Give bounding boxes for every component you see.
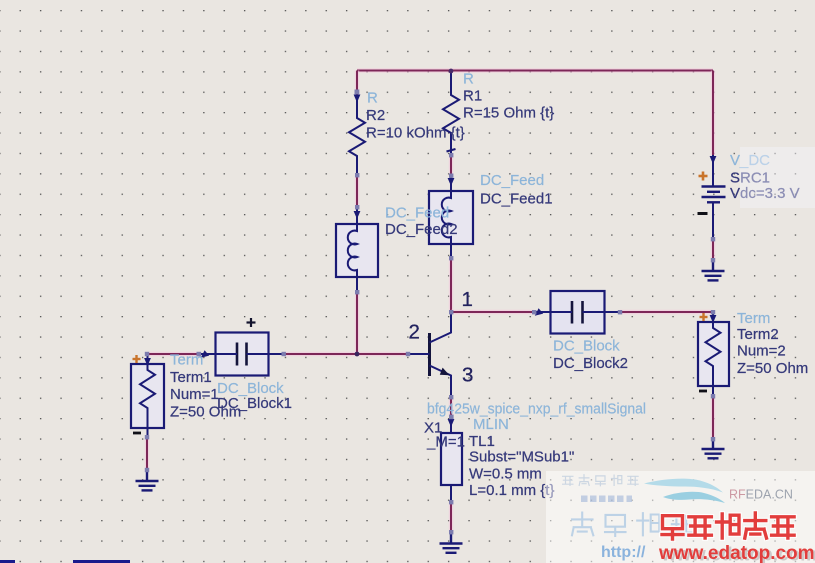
svg-text:DC_Feed: DC_Feed xyxy=(480,172,544,189)
watermark backdrop xyxy=(546,471,815,563)
ground below Term2 xyxy=(702,439,725,458)
svg-text:R2: R2 xyxy=(366,107,385,124)
pin marker Term1 top xyxy=(145,352,149,356)
pin marker base xyxy=(406,352,410,356)
svg-text:R: R xyxy=(367,90,378,107)
wire V_DC bottom to ground xyxy=(711,239,715,260)
wire Term1 bottom to ground xyxy=(145,437,149,470)
pin marker ground Term2 xyxy=(711,437,715,441)
pin marker DC_Block2 right xyxy=(618,310,622,314)
Term1 minus sign xyxy=(133,432,141,435)
junction node base tee xyxy=(355,352,360,357)
pin marker R2 bottom xyxy=(355,173,359,177)
resistor R1 xyxy=(443,71,459,155)
resistor R1 pin2 tick xyxy=(447,149,456,152)
svg-text:TL1: TL1 xyxy=(469,433,495,450)
wire left vertical down to R2 top xyxy=(355,71,359,96)
svg-text:MLIN: MLIN xyxy=(473,416,509,433)
DC_Feed DC_Feed1 xyxy=(429,176,473,258)
svg-text:www.edatop.com: www.edatop.com xyxy=(658,543,815,563)
svg-text:R: R xyxy=(463,71,474,88)
svg-text:bfg425w_spice_nxp_rf_smallSign: bfg425w_spice_nxp_rf_smallSignal xyxy=(427,401,646,418)
V_DC minus sign xyxy=(698,212,708,215)
pin marker ground MLIN xyxy=(449,530,453,534)
watermark blue squares xyxy=(581,496,632,503)
svg-text:DC_Block1: DC_Block1 xyxy=(217,395,292,412)
wire top horizontal from R2 to V_DC xyxy=(357,68,713,72)
svg-text:DC_Block2: DC_Block2 xyxy=(553,355,628,372)
microstrip line MLIN TL1 xyxy=(441,417,462,502)
svg-text:DC_Feed1: DC_Feed1 xyxy=(480,191,553,208)
pin marker DC_Feed2 bottom xyxy=(355,290,359,294)
resistor R2 xyxy=(349,95,365,175)
wire DC_Feed1 bottom to collector node xyxy=(449,258,453,312)
svg-text:R=15 Ohm {t}: R=15 Ohm {t} xyxy=(463,105,554,122)
pin marker MLIN top xyxy=(449,415,454,420)
transistor Q1 bfg425w X1 xyxy=(408,312,451,397)
pin marker MLIN bottom xyxy=(449,500,453,504)
wire Term2 bottom to ground xyxy=(711,396,715,439)
pin marker DC_Feed2 top xyxy=(355,205,359,209)
pin marker DC_Block1 right xyxy=(282,352,286,356)
svg-text:Num=1: Num=1 xyxy=(170,386,219,403)
svg-text:RFEDA.CN: RFEDA.CN xyxy=(729,488,793,502)
V_DC pin1 arrow xyxy=(710,156,717,164)
voltage source V_DC SRC1 xyxy=(702,155,726,239)
watermark faint chinese line xyxy=(563,476,573,485)
watermark red training text xyxy=(662,516,683,539)
svg-text:DC_Feed2: DC_Feed2 xyxy=(385,221,458,238)
pin marker collector node xyxy=(449,310,453,314)
svg-text:Term2: Term2 xyxy=(737,326,779,343)
pin marker DC_Feed1 bottom xyxy=(449,256,453,260)
wire MLIN bottom to ground xyxy=(449,502,453,532)
pin marker ground Term1 xyxy=(145,468,149,472)
svg-text:Subst="MSub1": Subst="MSub1" xyxy=(469,449,574,466)
wire collector node to DC_Block2 xyxy=(451,310,534,314)
svg-text:R=10 kOhm {t}: R=10 kOhm {t} xyxy=(366,125,465,142)
Term2 minus sign xyxy=(699,390,707,393)
pin marker ground V_DC xyxy=(711,258,715,262)
svg-text:DC_Feed: DC_Feed xyxy=(385,205,449,222)
svg-text:Term: Term xyxy=(170,352,203,369)
pin marker R1 bottom xyxy=(449,153,453,157)
wire Term1 to DC_Block1 xyxy=(147,352,201,356)
svg-text:Z=50 Ohm: Z=50 Ohm xyxy=(737,360,808,377)
capacitor DC_Block2 xyxy=(534,291,620,334)
term Term2 xyxy=(698,312,729,396)
junction node R1 top xyxy=(449,69,454,74)
ground below V_DC xyxy=(702,260,725,280)
svg-text:1: 1 xyxy=(462,288,473,311)
svg-text:DC_Block: DC_Block xyxy=(553,338,620,355)
svg-text:2: 2 xyxy=(409,321,420,344)
wire right vertical to V_DC xyxy=(711,71,715,156)
wire DC_Block1 to transistor base xyxy=(284,352,408,356)
DC_Feed DC_Feed2 xyxy=(336,209,378,292)
wire R2 bottom to DC_Feed2 top xyxy=(355,175,359,209)
ground below Term1 xyxy=(136,470,159,490)
svg-text:_M=1: _M=1 xyxy=(426,434,465,451)
pin marker R2 top xyxy=(355,90,360,95)
ground below MLIN xyxy=(440,532,463,553)
svg-text:Term1: Term1 xyxy=(170,369,212,386)
wire R1 bottom to DC_Feed1 top xyxy=(449,155,453,176)
pin marker DC_Block2 left xyxy=(532,310,536,314)
pin marker DC_Block1 left xyxy=(197,352,202,357)
svg-text:R1: R1 xyxy=(463,88,482,105)
pin marker Term2 bottom xyxy=(711,394,715,398)
watermark bird logo xyxy=(644,479,723,493)
V_DC plus sign xyxy=(699,172,708,181)
svg-text:http://: http:// xyxy=(601,544,646,561)
wire DC_Block2 to Term2 xyxy=(620,310,712,314)
DC_Block1 plus sign xyxy=(247,318,256,327)
term Term1 xyxy=(131,354,164,437)
Term2 plus sign xyxy=(700,313,708,321)
resistor R2 pin1 arrow xyxy=(354,95,361,103)
pin marker Term2 top xyxy=(711,310,715,314)
svg-text:L=0.1 mm {t}: L=0.1 mm {t} xyxy=(469,482,554,499)
pin marker V_DC bottom xyxy=(711,237,715,241)
pin marker Term1 bottom xyxy=(145,435,149,439)
svg-text:Num=2: Num=2 xyxy=(737,343,786,360)
wire DC_Feed2 bottom to base junction xyxy=(355,292,359,354)
pin marker DC_Feed1 top xyxy=(449,174,453,178)
bottom scrollbar fragments xyxy=(0,560,15,563)
Term1 plus sign xyxy=(133,355,141,363)
pin marker emitter xyxy=(449,395,453,399)
watermark big blue chinese xyxy=(572,513,593,536)
svg-text:3: 3 xyxy=(462,364,473,387)
svg-text:W=0.5 mm: W=0.5 mm xyxy=(469,466,542,483)
wire emitter to MLIN xyxy=(449,397,453,417)
capacitor DC_Block1 xyxy=(200,333,284,376)
svg-text:Term: Term xyxy=(737,310,770,327)
